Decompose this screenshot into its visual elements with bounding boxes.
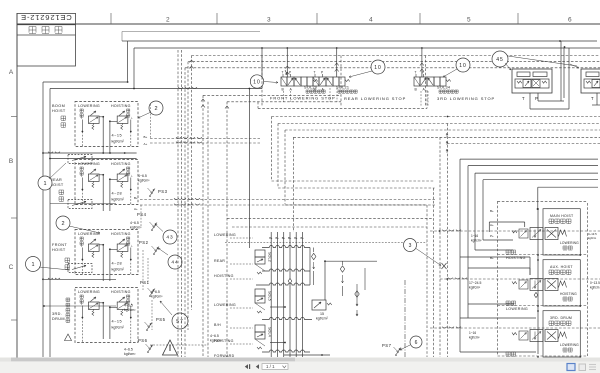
svg-text:REAR LOWERING STOP: REAR LOWERING STOP xyxy=(344,96,406,101)
svg-text:45: 45 xyxy=(496,57,504,63)
svg-text:SOL21: SOL21 xyxy=(336,86,349,90)
svg-text:HOISTING: HOISTING xyxy=(111,290,131,294)
svg-text:3RD. DRUM: 3RD. DRUM xyxy=(550,316,572,320)
svg-text:DRUM: DRUM xyxy=(52,317,65,321)
svg-text:B+: B+ xyxy=(294,236,298,240)
svg-text:T: T xyxy=(81,174,83,178)
svg-text:T: T xyxy=(415,71,417,75)
svg-text:10: 10 xyxy=(459,63,467,69)
svg-text:REAR: REAR xyxy=(214,259,225,263)
svg-text:10: 10 xyxy=(253,79,261,85)
svg-text:LOWERING: LOWERING xyxy=(78,104,100,108)
svg-text:kgf/cm²: kgf/cm² xyxy=(124,352,136,356)
svg-text:kgf/cm²: kgf/cm² xyxy=(469,286,481,290)
svg-text:kgf/cm²: kgf/cm² xyxy=(112,268,125,272)
svg-text:6: 6 xyxy=(568,17,572,24)
svg-text:kgf/cm²: kgf/cm² xyxy=(138,179,150,183)
svg-text:PS2: PS2 xyxy=(139,240,149,245)
svg-text:A+: A+ xyxy=(144,142,148,146)
svg-text:T: T xyxy=(81,244,83,248)
svg-text:4~6.5: 4~6.5 xyxy=(210,334,219,338)
svg-text:B+: B+ xyxy=(490,209,494,213)
svg-text:3: 3 xyxy=(409,243,412,249)
svg-text:2: 2 xyxy=(61,221,64,227)
svg-text:3RD LOWERING STOP: 3RD LOWERING STOP xyxy=(437,96,495,101)
svg-text:3: 3 xyxy=(267,17,271,24)
svg-text:2: 2 xyxy=(166,17,170,24)
svg-text:5: 5 xyxy=(467,17,471,24)
svg-text:LOWERING: LOWERING xyxy=(78,232,100,236)
svg-text:HOISTING: HOISTING xyxy=(214,274,234,278)
svg-text:LOWERING: LOWERING xyxy=(78,290,100,294)
svg-text:FRONT: FRONT xyxy=(52,243,67,247)
svg-text:B+: B+ xyxy=(490,256,494,260)
svg-text:LOWERING: LOWERING xyxy=(560,343,579,347)
svg-text:HOISTING: HOISTING xyxy=(111,232,131,236)
svg-text:SOL34: SOL34 xyxy=(437,86,450,90)
svg-text:T: T xyxy=(522,96,525,101)
svg-text:⊥: ⊥ xyxy=(131,244,134,248)
svg-text:HOISTING: HOISTING xyxy=(111,104,131,108)
svg-text:57: 57 xyxy=(176,319,184,325)
svg-text:1: 1 xyxy=(31,262,34,268)
svg-text:⊥: ⊥ xyxy=(131,174,134,178)
svg-text:A+: A+ xyxy=(490,223,494,227)
svg-text:HOISTING: HOISTING xyxy=(560,292,577,296)
svg-text:PS3: PS3 xyxy=(158,189,168,194)
svg-text:HOIST: HOIST xyxy=(52,109,66,113)
svg-text:4~6.5: 4~6.5 xyxy=(124,304,133,308)
svg-text:kgf/cm: kgf/cm xyxy=(588,236,597,240)
svg-text:BOOM: BOOM xyxy=(52,104,65,108)
svg-text:A: A xyxy=(9,69,14,76)
svg-text:PS5: PS5 xyxy=(156,317,166,322)
svg-text:LOWERING: LOWERING xyxy=(78,162,100,166)
svg-text:PS6: PS6 xyxy=(138,338,148,343)
svg-text:FRONT LOWERING STOP: FRONT LOWERING STOP xyxy=(270,95,336,100)
svg-text:B+: B+ xyxy=(288,236,292,240)
svg-text:HOISTING: HOISTING xyxy=(214,339,234,343)
svg-text:4~15: 4~15 xyxy=(112,134,123,138)
svg-text:T: T xyxy=(282,71,284,75)
svg-text:T: T xyxy=(314,71,316,75)
svg-text:CE126212-E: CE126212-E xyxy=(20,13,71,22)
svg-text:1: 1 xyxy=(43,181,46,187)
svg-text:1 / 1: 1 / 1 xyxy=(266,364,275,369)
svg-text:B+: B+ xyxy=(282,236,286,240)
svg-text:HOISTING: HOISTING xyxy=(506,256,526,260)
svg-text:B+: B+ xyxy=(134,196,138,200)
svg-text:kgf/cm: kgf/cm xyxy=(590,286,600,290)
svg-text:LOWERING: LOWERING xyxy=(560,241,579,245)
svg-text:1~16: 1~16 xyxy=(469,331,476,335)
svg-text:B+: B+ xyxy=(269,236,273,240)
svg-text:LOWERING: LOWERING xyxy=(214,303,236,307)
svg-text:2: 2 xyxy=(154,106,157,112)
svg-text:4~28: 4~28 xyxy=(112,262,123,266)
svg-text:B+: B+ xyxy=(144,135,148,139)
svg-text:T: T xyxy=(81,302,83,306)
svg-text:C: C xyxy=(9,264,14,271)
svg-text:4~6.5: 4~6.5 xyxy=(124,348,133,352)
svg-text:43: 43 xyxy=(166,235,173,241)
svg-text:kgf/cm²: kgf/cm² xyxy=(112,198,125,202)
svg-text:PS4: PS4 xyxy=(137,212,147,217)
svg-text:0~13.5: 0~13.5 xyxy=(590,281,600,285)
svg-text:B+: B+ xyxy=(276,236,280,240)
svg-text:HOIST: HOIST xyxy=(52,248,66,252)
svg-text:T: T xyxy=(591,96,594,101)
svg-text:T: T xyxy=(81,116,83,120)
svg-text:4~15: 4~15 xyxy=(112,320,123,324)
svg-text:1~16: 1~16 xyxy=(471,234,478,238)
svg-text:LOWERING: LOWERING xyxy=(506,307,528,311)
svg-text:10: 10 xyxy=(374,65,382,71)
svg-text:4~6.5: 4~6.5 xyxy=(130,221,139,225)
svg-text:17~24.5: 17~24.5 xyxy=(469,281,481,285)
svg-text:kgf/cm²: kgf/cm² xyxy=(112,140,125,144)
svg-text:A+: A+ xyxy=(134,207,138,211)
svg-text:kgf/cm²: kgf/cm² xyxy=(124,308,136,312)
svg-text:HOISTING: HOISTING xyxy=(111,162,131,166)
svg-text:P+: P+ xyxy=(490,234,494,238)
svg-text:LOWERING: LOWERING xyxy=(214,233,236,237)
svg-text:4~6.5: 4~6.5 xyxy=(151,290,160,294)
svg-text:P: P xyxy=(535,96,538,101)
svg-text:4: 4 xyxy=(369,17,373,24)
svg-text:15: 15 xyxy=(320,312,324,316)
svg-text:kgf/cm²: kgf/cm² xyxy=(316,317,329,321)
svg-text:AUX. HOIST: AUX. HOIST xyxy=(550,265,573,269)
svg-text:kgf/cm²: kgf/cm² xyxy=(471,239,481,243)
svg-text:kgf/cm²: kgf/cm² xyxy=(151,295,163,299)
svg-text:B+: B+ xyxy=(301,236,305,240)
svg-text:B: B xyxy=(9,158,13,165)
svg-text:⊥: ⊥ xyxy=(131,116,134,120)
svg-text:kgf/cm²: kgf/cm² xyxy=(130,226,142,230)
svg-text:B/H: B/H xyxy=(214,323,221,327)
svg-text:P: P xyxy=(321,71,323,75)
svg-text:4~28: 4~28 xyxy=(112,192,123,196)
svg-text:PS7: PS7 xyxy=(382,343,392,348)
svg-text:kgf/cm²: kgf/cm² xyxy=(469,336,479,340)
svg-text:P: P xyxy=(289,71,291,75)
svg-text:3RD.: 3RD. xyxy=(52,312,62,316)
svg-text:6: 6 xyxy=(415,340,418,346)
svg-text:FORWARD: FORWARD xyxy=(214,354,235,358)
svg-text:44: 44 xyxy=(171,260,178,266)
svg-text:P: P xyxy=(422,71,424,75)
svg-text:kgf/cm²: kgf/cm² xyxy=(112,326,125,330)
svg-text:MAIN HOIST: MAIN HOIST xyxy=(550,214,574,218)
svg-text:4~6.5: 4~6.5 xyxy=(138,174,147,178)
